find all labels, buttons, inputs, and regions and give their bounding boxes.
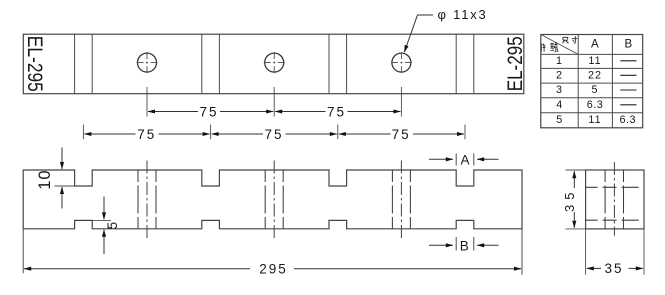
dimension 75 notch1-notch2 [84,133,209,135]
table row dividers [541,54,643,112]
label EL-295 right end [503,36,527,91]
svg-text:B: B [624,39,632,51]
side view outline [23,170,522,229]
dimension 75 hole1-hole2 [148,111,273,113]
dimension 75 notch2-notch3 [212,133,337,135]
dimension row1 extension line at hole 3 [400,87,402,117]
dimension 5 text [105,222,120,230]
svg-text:EL-295: EL-295 [23,36,47,92]
hole 3 circle [392,53,411,72]
table row 1 [556,55,602,67]
dimension 35 vertical text [562,188,577,212]
svg-text:6.3: 6.3 [587,99,604,111]
top view notch projection lines pair 3 [329,34,347,93]
dimension A text [460,152,469,167]
dimension row2 tick 1 [82,125,84,140]
dimension A ticks [456,154,474,166]
side view centerline hole 2 [273,161,275,239]
end view 35 vertical dim extension lines [566,170,586,229]
end view vertical centerline [613,162,615,236]
top view notch projection lines pair 1 [75,34,93,93]
svg-text:A: A [460,152,469,167]
dimension A arrows [429,158,499,160]
top view notch projection lines pair 2 [202,34,220,93]
svg-text:75: 75 [199,104,218,119]
dimension B arrows [429,244,499,246]
svg-text:1: 1 [556,55,563,67]
leader line to hole 3 [404,15,433,52]
svg-text:75: 75 [264,127,283,142]
side view centerline hole 3 [400,161,402,239]
svg-text:3: 3 [556,84,563,96]
table row 4 [556,99,603,111]
dimension row1 extension line at hole 1 [146,87,148,117]
dimension row2 tick 2 [210,125,212,140]
side view right edge extension for 295 dim [521,229,523,275]
svg-text:35: 35 [562,188,577,212]
table header B [624,39,632,51]
end view bottom extension lines [586,229,644,275]
svg-text:75: 75 [327,104,346,119]
dimension B text [460,238,469,253]
svg-text:5: 5 [105,222,120,230]
end view hidden hole lines [605,170,623,229]
dimension row1 extension line at hole 2 [273,87,275,117]
svg-text:EL-295: EL-295 [503,36,527,91]
dimension 75 hole2-hole3 [275,111,400,113]
table header text jian-hao (part no) [541,43,558,52]
table row 5 [556,114,636,126]
svg-text:11: 11 [588,114,601,126]
hole 2 centerline cross [264,52,285,73]
svg-text:5: 5 [556,114,563,126]
hole 1 circle [138,53,157,72]
label EL-295 left end [23,36,47,92]
table header text chi-cun (dimension) [563,36,578,43]
side view hidden hole lines 3 [392,170,410,229]
svg-text:6.3: 6.3 [620,114,637,126]
svg-text:10: 10 [36,169,54,189]
end view hidden notch depth lines [586,187,644,220]
dimension 5 arrows [103,197,105,255]
top view outline [23,34,524,93]
table row 2 [556,69,602,81]
leader text phi 11x3 [438,7,488,22]
hole 1 centerline cross [137,52,158,73]
table column dividers [578,35,612,128]
svg-text:75: 75 [392,127,411,142]
svg-text:295: 295 [259,261,288,276]
dimension 10 extension line [55,185,75,187]
dimension 35 horizontal text [604,261,623,276]
svg-text:B: B [460,238,469,253]
dimension 75 notch3-notch4 [339,133,464,135]
side view hidden hole lines 2 [265,170,283,229]
dimension 5 extension line [92,219,111,221]
dimension row2 tick 3 [337,125,339,140]
dimension 35 vertical line and arrows [573,171,575,228]
side view hidden hole lines 1 [138,170,156,229]
hole 2 circle [265,53,284,72]
dimension row2 tick 4 [464,125,466,140]
table frame [541,35,643,128]
svg-text:11: 11 [588,55,601,67]
dimension 295 text [259,261,288,276]
svg-text:4: 4 [556,99,563,111]
side view left edge extension for 295 dim [22,229,24,273]
svg-text:2: 2 [556,69,563,81]
table header A [591,39,599,51]
svg-text:5: 5 [591,84,598,96]
svg-text:22: 22 [588,69,602,81]
dimension 295 line and arrows [24,268,521,270]
svg-text:φ 11x3: φ 11x3 [438,7,488,22]
table row 3 [556,84,599,96]
svg-text:A: A [591,39,599,51]
dimension B ticks [456,237,474,251]
hole 3 centerline cross [391,52,412,73]
dimension 10 text [36,169,54,189]
table header diagonal [541,35,578,55]
dimension 35 horizontal line and arrows [587,267,643,269]
svg-text:35: 35 [604,261,623,276]
side view centerline hole 1 [146,161,148,239]
end view outline [586,170,644,229]
svg-text:75: 75 [137,127,156,142]
dimension 10 arrows [61,148,63,209]
top view notch projection lines pair 4 [456,34,474,93]
